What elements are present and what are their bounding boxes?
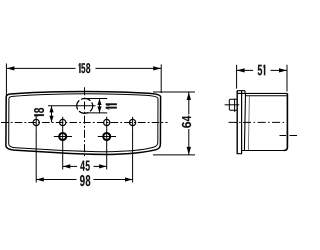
- dimension text 158: [78, 63, 90, 73]
- extension line hole left outer: [35, 128, 37, 182]
- hole cross right outer: [130, 117, 136, 128]
- side view lens top bump: [237, 91, 245, 94]
- dimension text 45: [80, 161, 90, 171]
- side view lens bottom: [237, 153, 243, 155]
- dimension text 64: [182, 116, 191, 128]
- hole cross right inner: [104, 117, 110, 128]
- side view body bottom: [242, 150, 285, 152]
- extension line hole right inner: [106, 128, 108, 169]
- extension line hole left inner: [62, 128, 64, 169]
- circle centre reference line: [48, 105, 96, 107]
- clip cross vertical: [234, 99, 236, 112]
- dimension 64: [153, 92, 195, 155]
- side view body top inner: [245, 95, 286, 97]
- side view housing internal edge: [248, 97, 251, 151]
- side rear screw cross: [280, 131, 298, 139]
- dimension text 11: [106, 103, 117, 109]
- front view outer outline: [6, 92, 161, 155]
- front view inner outline: [9, 94, 158, 152]
- dimension 45: [63, 164, 107, 168]
- screw right: [98, 133, 116, 140]
- dimension text 98: [80, 175, 90, 186]
- dimension 51: [237, 65, 287, 92]
- side view body front: [244, 93, 245, 150]
- dimension text 51: [258, 65, 266, 76]
- side view lens back: [241, 91, 243, 154]
- side view body top: [237, 92, 287, 94]
- side view body back: [284, 93, 288, 150]
- extension line hole right outer: [132, 128, 134, 182]
- dimension 158: [6, 64, 161, 97]
- side view centerline: [229, 121, 288, 123]
- dimension 18: [49, 106, 53, 122]
- screw left: [54, 133, 72, 140]
- dimension text 18: [34, 108, 44, 117]
- clip cross horizontal: [225, 104, 240, 106]
- side view clip: [229, 99, 237, 110]
- dimension 98: [36, 177, 132, 181]
- dimension 11: [84, 99, 107, 113]
- horizontal centerline: [1, 122, 168, 124]
- license lamp circle: [77, 99, 93, 114]
- side view lens front face: [236, 91, 238, 154]
- hole cross left inner: [60, 117, 66, 128]
- hole cross left outer: [33, 117, 39, 128]
- vertical centerline: [84, 87, 86, 157]
